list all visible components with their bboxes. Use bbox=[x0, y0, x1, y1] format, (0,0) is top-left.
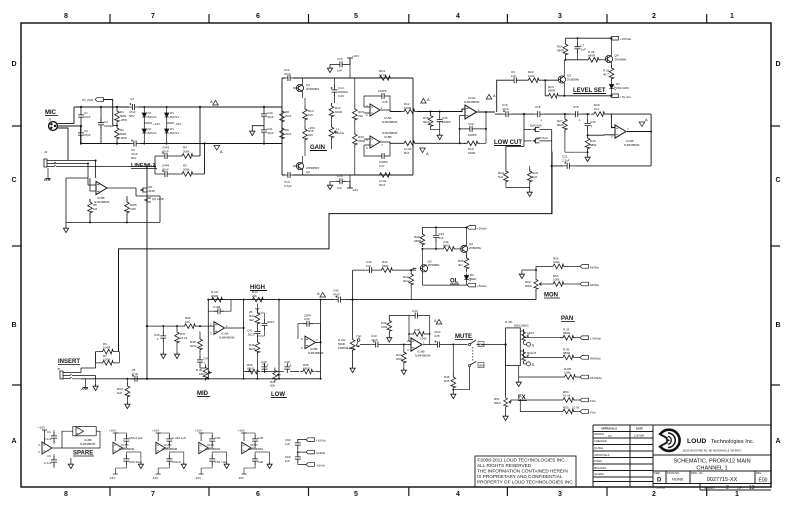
node A arrow up at gain output bbox=[421, 97, 430, 103]
svg-text:2.2uF: 2.2uF bbox=[562, 159, 570, 163]
svg-text:100k: 100k bbox=[420, 337, 427, 341]
capacitor C14 1000uF bbox=[331, 78, 349, 103]
svg-text:C53: C53 bbox=[215, 436, 221, 440]
svg-text:6: 6 bbox=[256, 491, 260, 498]
ground cell3 bbox=[212, 452, 229, 469]
svg-text:NJM4580M: NJM4580M bbox=[80, 442, 96, 446]
wire feed to fx pot bbox=[505, 345, 507, 397]
gain cell box bbox=[282, 78, 413, 175]
svg-text:NJM4580M: NJM4580M bbox=[382, 131, 398, 135]
svg-text:680k: 680k bbox=[590, 143, 597, 147]
svg-text:2N5088s: 2N5088s bbox=[428, 263, 441, 267]
svg-text:C1: C1 bbox=[47, 430, 51, 434]
capacitor C50 0.1uF bbox=[115, 433, 143, 448]
op-amp U16C bbox=[156, 442, 178, 453]
svg-text:47uF: 47uF bbox=[132, 372, 139, 376]
svg-text:1uF: 1uF bbox=[337, 186, 342, 190]
svg-text:QA REL: QA REL bbox=[594, 446, 604, 450]
svg-text:-16V: -16V bbox=[238, 476, 244, 480]
power -15V mid of D3/D4 bbox=[167, 122, 182, 126]
svg-text:S: S bbox=[532, 362, 535, 367]
svg-text:NONE: NONE bbox=[672, 477, 684, 482]
power -16V cell1 bbox=[109, 474, 118, 480]
svg-text:-16V: -16V bbox=[195, 476, 201, 480]
resistor R49 100k to gnd bbox=[381, 316, 409, 343]
svg-text:SHEET: SHEET bbox=[704, 486, 717, 490]
svg-text:Q6 4448: Q6 4448 bbox=[152, 197, 164, 201]
label LINE/HI-Z bbox=[131, 163, 157, 169]
svg-text:C3: C3 bbox=[47, 454, 51, 458]
wire U14B output to feedback bbox=[552, 114, 651, 214]
diode D2 bbox=[142, 119, 157, 144]
capacitor C444 47uF bbox=[155, 164, 179, 178]
capacitor C21 2.2uF bbox=[562, 155, 573, 169]
op-amp U14A bbox=[461, 96, 495, 119]
op-amp U16D spare bbox=[38, 442, 52, 454]
resistor R18 6k19 bbox=[423, 112, 433, 129]
resistor R13 620R bbox=[329, 103, 343, 124]
ground at C46 bbox=[437, 133, 442, 140]
capacitor C18 .1 bbox=[534, 105, 544, 122]
resistor RU6 360R bbox=[353, 131, 367, 175]
transistor Q2 bbox=[293, 156, 319, 175]
node A arrow at U14B out bbox=[639, 117, 648, 127]
bypass C15 +16V bbox=[327, 54, 359, 78]
svg-text:-16V: -16V bbox=[152, 476, 158, 480]
svg-text:+5Vdet: +5Vdet bbox=[477, 284, 487, 288]
svg-text:DRAWN: DRAWN bbox=[594, 432, 604, 436]
node A arrow on EQ rail bbox=[317, 291, 326, 297]
svg-text:100k: 100k bbox=[381, 325, 388, 329]
level set bottom rail bbox=[545, 80, 610, 96]
svg-text:A: A bbox=[645, 117, 648, 122]
flag GNDdet bbox=[306, 450, 325, 455]
svg-text:C: C bbox=[11, 177, 16, 184]
node junctions EQ rails bbox=[199, 299, 322, 380]
svg-text:TH: TH bbox=[608, 434, 612, 438]
svg-text:+15V: +15V bbox=[308, 126, 315, 130]
node mute output junction bbox=[452, 344, 454, 346]
svg-text:.1: .1 bbox=[156, 337, 159, 341]
svg-text:100k: 100k bbox=[553, 260, 560, 264]
resistor R58 10.0k bbox=[560, 390, 580, 402]
svg-text:680R: 680R bbox=[548, 89, 556, 93]
svg-text:680Ω: 680Ω bbox=[247, 367, 255, 371]
label GAIN bbox=[310, 145, 327, 151]
capacitor C41 .0033 bbox=[247, 326, 260, 339]
svg-text:50kC: 50kC bbox=[525, 284, 533, 288]
resistor RU3 10.0k bottom bbox=[377, 173, 393, 187]
svg-text:50V: 50V bbox=[131, 156, 136, 160]
svg-text:680Ω: 680Ω bbox=[443, 244, 451, 248]
ground low cut bbox=[527, 190, 532, 197]
svg-text:C54 7uF: C54 7uF bbox=[215, 460, 227, 464]
svg-text:+16V: +16V bbox=[109, 429, 116, 433]
svg-text:QA ENG: QA ENG bbox=[594, 472, 604, 476]
node row wire bbox=[566, 59, 586, 61]
resistor R54 680 bbox=[560, 348, 580, 360]
svg-text:NJM4580M: NJM4580M bbox=[415, 354, 431, 358]
capacitor C6 1uF bbox=[510, 70, 520, 83]
svg-text:4k7: 4k7 bbox=[458, 263, 463, 267]
svg-text:6u8: 6u8 bbox=[117, 391, 122, 395]
svg-text:46.7: 46.7 bbox=[603, 73, 609, 77]
svg-text:A: A bbox=[220, 149, 223, 154]
svg-text:16R: 16R bbox=[199, 372, 205, 376]
svg-text:47pF: 47pF bbox=[267, 131, 274, 135]
svg-text:CHANNEL 1: CHANNEL 1 bbox=[696, 466, 727, 472]
svg-text:20k: 20k bbox=[270, 384, 275, 388]
potentiometer R52 50kC MON bbox=[525, 277, 542, 291]
wire mute switch to pan bbox=[481, 344, 506, 346]
chassis ground at jack bbox=[44, 168, 50, 181]
svg-text:-16V: -16V bbox=[109, 476, 115, 480]
svg-text:22PF: 22PF bbox=[304, 314, 311, 318]
LED D7 green bbox=[609, 82, 629, 96]
power +16V cell3 bbox=[195, 429, 204, 442]
potentiometer mute fader R42 50kB bbox=[338, 300, 362, 373]
svg-text:+15Vdet: +15Vdet bbox=[620, 37, 631, 41]
wire R18/C46 join to ground bbox=[431, 112, 440, 134]
svg-text:4.7pF: 4.7pF bbox=[284, 184, 292, 188]
svg-text:100R: 100R bbox=[103, 346, 111, 350]
resistor R28 680k bbox=[585, 135, 597, 155]
jfet Q7 bbox=[144, 197, 164, 203]
capacitor C448 feedback bbox=[208, 300, 231, 315]
svg-text:100R: 100R bbox=[404, 106, 412, 110]
svg-text:47uF: 47uF bbox=[162, 150, 169, 154]
label PAN bbox=[561, 316, 575, 322]
resistor R31 3.3k bbox=[422, 240, 460, 251]
svg-text:50kC/50kC: 50kC/50kC bbox=[514, 324, 530, 328]
ground of hi-z cell bbox=[63, 222, 68, 232]
svg-text:680k: 680k bbox=[382, 264, 389, 268]
resistor R25 46R4 bbox=[603, 65, 614, 83]
svg-text:R55: R55 bbox=[563, 406, 569, 410]
svg-text:.1: .1 bbox=[266, 363, 269, 367]
capacitor C45 47uF bbox=[434, 330, 444, 348]
resistor RU4 10.0k top bbox=[377, 69, 393, 80]
capacitor C443 47uF bbox=[155, 146, 179, 160]
phantom flag PH_PAN bbox=[82, 98, 117, 126]
transistor Q1 bbox=[293, 78, 319, 98]
svg-text:16 2k: 16 2k bbox=[180, 336, 188, 340]
svg-text:2N5088s: 2N5088s bbox=[469, 246, 482, 250]
svg-text:C19: C19 bbox=[573, 105, 579, 109]
svg-text:200k: 200k bbox=[183, 150, 190, 154]
flag MUTE bus bbox=[580, 375, 602, 380]
svg-text:+5Vdet: +5Vdet bbox=[477, 226, 487, 230]
svg-text:6u8: 6u8 bbox=[444, 379, 449, 383]
svg-text:SCALE: SCALE bbox=[656, 486, 665, 490]
transistor Q5 bbox=[420, 249, 440, 285]
svg-text:100k: 100k bbox=[553, 278, 560, 282]
resistor R45 680 bbox=[300, 363, 314, 374]
capacitor C55 bbox=[201, 452, 226, 474]
svg-text:7: 7 bbox=[151, 13, 155, 20]
svg-text:SWb: SWb bbox=[479, 364, 485, 368]
label INSERT bbox=[58, 359, 80, 365]
svg-text:2N5088/3: 2N5088/3 bbox=[306, 87, 319, 91]
svg-text:100k: 100k bbox=[528, 74, 535, 78]
svg-text:FSCM NO.: FSCM NO. bbox=[667, 471, 680, 475]
potentiometer MID R41 bbox=[196, 365, 212, 381]
svg-text:D: D bbox=[11, 61, 16, 68]
capacitor C46 100pF bbox=[437, 116, 451, 126]
cell box hi-z bbox=[66, 178, 160, 222]
resistor R38 2k02 bbox=[190, 332, 202, 358]
svg-text:NJM4580M: NJM4580M bbox=[205, 447, 221, 451]
svg-text:680R: 680R bbox=[588, 54, 596, 58]
svg-text:2: 2 bbox=[652, 13, 656, 20]
connector J3 XLR bbox=[49, 122, 58, 131]
svg-text:RIGHT: RIGHT bbox=[527, 351, 537, 355]
svg-text:5: 5 bbox=[354, 13, 358, 20]
node at R23 tap bbox=[544, 79, 546, 81]
svg-text:47pF: 47pF bbox=[284, 72, 291, 76]
svg-text:A: A bbox=[317, 291, 320, 296]
op-amp U16C mute bbox=[407, 338, 431, 358]
svg-text:1uF: 1uF bbox=[366, 264, 371, 268]
wire mute wiper to opamp bbox=[360, 344, 411, 346]
svg-text:2N5088s: 2N5088s bbox=[615, 58, 628, 62]
resistor R27 8k25 bbox=[557, 114, 588, 152]
ground R28 bbox=[585, 155, 590, 162]
svg-text:3k32: 3k32 bbox=[403, 279, 410, 283]
jfet Q8 bbox=[532, 127, 539, 132]
zone numbers top bbox=[64, 13, 734, 20]
capacitor C20 .1 bbox=[585, 114, 596, 135]
svg-text:910R: 910R bbox=[468, 151, 476, 155]
svg-text:100PF: 100PF bbox=[378, 89, 387, 93]
svg-text:D: D bbox=[775, 61, 780, 68]
switch SW14b mute bbox=[469, 362, 485, 368]
svg-text:A: A bbox=[427, 97, 430, 102]
wire gain lower output bbox=[390, 142, 465, 143]
wire tap up to level set bbox=[497, 80, 558, 112]
svg-text:C47: C47 bbox=[379, 164, 385, 168]
potentiometer PAN right bbox=[520, 349, 536, 364]
resistor R57 100k bbox=[550, 274, 580, 286]
resistor R9 bbox=[280, 125, 292, 144]
svg-text:50kC: 50kC bbox=[494, 401, 502, 405]
ground insert arrow bbox=[93, 379, 98, 391]
zone ticks top bbox=[110, 14, 707, 23]
svg-text:2: 2 bbox=[652, 491, 656, 498]
bypass cells bbox=[109, 429, 143, 481]
capacitor C32 parallel bbox=[257, 313, 274, 336]
wire drop from bottom rail bbox=[204, 144, 206, 175]
svg-text:-16V: -16V bbox=[352, 188, 358, 192]
svg-text:1k0: 1k0 bbox=[308, 113, 313, 117]
diode D4 bbox=[165, 119, 180, 144]
wire pan right out bbox=[524, 349, 560, 357]
power +16V cell1 bbox=[109, 429, 118, 442]
fet cell low cut bbox=[506, 114, 552, 168]
svg-text:+15V: +15V bbox=[153, 122, 160, 126]
zone numbers bottom bbox=[64, 491, 739, 498]
capacitor C47 feedback bbox=[364, 142, 390, 168]
approvals table text bbox=[594, 427, 644, 477]
resistor R34 680k bbox=[379, 260, 395, 272]
capacitor C41 47pF bbox=[261, 119, 274, 144]
svg-text:10k: 10k bbox=[185, 320, 190, 324]
resistor RC6 6u8 bbox=[117, 378, 130, 409]
svg-text:BAV21: BAV21 bbox=[148, 115, 157, 119]
svg-text:C57uF: C57uF bbox=[172, 460, 181, 464]
label MIC bbox=[45, 110, 58, 122]
svg-text:.1: .1 bbox=[203, 361, 206, 365]
wires to flags bbox=[298, 440, 306, 465]
svg-text:8: 8 bbox=[64, 491, 68, 498]
svg-text:GkCH: GkCH bbox=[336, 131, 344, 135]
svg-text:680R: 680R bbox=[414, 239, 422, 243]
svg-text:APPROVALS: APPROVALS bbox=[601, 427, 617, 431]
svg-text:R48: R48 bbox=[414, 328, 420, 332]
op-amp U16E bbox=[242, 442, 264, 453]
wire MON wiper row bbox=[542, 283, 550, 285]
svg-text:6k2: 6k2 bbox=[249, 318, 254, 322]
capacitor C1 47pF bbox=[78, 107, 91, 126]
svg-text:B: B bbox=[11, 322, 16, 329]
connector J5 insert jack bbox=[57, 367, 72, 379]
wire EQ cell dividers bbox=[208, 300, 320, 379]
power +16V cell2 bbox=[152, 429, 161, 442]
main wire after U14A bbox=[495, 114, 651, 127]
capacitor C42 47uF bbox=[371, 334, 382, 348]
node junction dots rails bbox=[80, 106, 118, 145]
flag MON L bbox=[580, 265, 599, 270]
svg-text:P ENG: P ENG bbox=[594, 459, 602, 463]
capacitor C49 bbox=[44, 454, 57, 468]
svg-text:.25W: .25W bbox=[120, 118, 127, 122]
svg-text:C18: C18 bbox=[535, 105, 541, 109]
svg-text:16220 WOOD-RED RD. NE WOODINV: 16220 WOOD-RED RD. NE WOODINVILLE, WA 98… bbox=[682, 450, 742, 453]
resistor R35 4k7 bbox=[458, 255, 469, 273]
op-amp U15C bbox=[113, 442, 135, 453]
svg-text:100PF: 100PF bbox=[442, 120, 451, 124]
label OL bbox=[450, 279, 459, 285]
detect flag cluster bbox=[285, 438, 326, 468]
svg-text:.0033: .0033 bbox=[247, 333, 255, 337]
svg-text:5: 5 bbox=[354, 491, 358, 498]
svg-text:5u6: 5u6 bbox=[532, 175, 537, 179]
svg-text:A: A bbox=[426, 151, 429, 156]
svg-text:.1: .1 bbox=[578, 118, 581, 122]
resistor R37 16.2k bbox=[174, 326, 187, 359]
pan dual gang box bbox=[505, 320, 530, 366]
resistor R46 8k25 bbox=[249, 339, 260, 379]
ground fx pot bbox=[503, 407, 508, 421]
svg-text:J5: J5 bbox=[57, 367, 61, 371]
transistor Q6 bbox=[460, 226, 481, 256]
zone letters left bbox=[11, 61, 16, 445]
wire pan left out bbox=[524, 329, 560, 338]
flag R MIX bbox=[580, 356, 601, 361]
wire to C443/C444 bbox=[154, 156, 156, 174]
zone ticks bottom bbox=[110, 487, 707, 496]
OL cell bottom rail bbox=[422, 284, 467, 286]
switch SW14a mute bbox=[469, 340, 485, 347]
spare cell power +16V bbox=[38, 426, 47, 444]
wire EQ rail to MON pot bbox=[535, 290, 537, 300]
svg-text:100k: 100k bbox=[564, 371, 571, 375]
svg-text:2200pF: 2200pF bbox=[104, 124, 114, 128]
op-amp U16A bbox=[210, 322, 245, 340]
label LOW CUT bbox=[494, 140, 522, 146]
svg-text:47uF: 47uF bbox=[434, 330, 441, 334]
svg-text:C15: C15 bbox=[337, 57, 343, 61]
resistor RW5 1M5 bbox=[125, 196, 137, 222]
svg-text:SCHEMATIC, PRORX12 MAIN: SCHEMATIC, PRORX12 MAIN bbox=[673, 459, 750, 465]
capacitor C19 .1 bbox=[572, 105, 582, 122]
potentiometer R51 50kC FX bbox=[494, 395, 511, 409]
resistor R59 10.0k bbox=[560, 406, 580, 414]
wire jack contacts right bbox=[54, 161, 155, 167]
svg-text:1k0: 1k0 bbox=[308, 133, 313, 137]
svg-text:.1: .1 bbox=[590, 124, 593, 128]
flag MON R bbox=[580, 282, 599, 287]
jumper S bottom bbox=[524, 362, 535, 367]
svg-text:B: B bbox=[775, 322, 780, 329]
resistor R5 1M bbox=[88, 199, 98, 222]
capacitor C33 1uF bbox=[433, 226, 444, 250]
capacitor C40 47pF bbox=[261, 107, 274, 120]
diode D3 bbox=[165, 107, 180, 119]
svg-text:A: A bbox=[434, 318, 437, 323]
svg-text:47pF: 47pF bbox=[84, 115, 91, 119]
svg-text:3: 3 bbox=[558, 491, 562, 498]
svg-text:+5V det: +5V det bbox=[620, 95, 631, 99]
svg-text:.25W: .25W bbox=[120, 136, 127, 140]
capacitor C36 22pF feedback bbox=[298, 314, 321, 343]
svg-text:2k21: 2k21 bbox=[285, 114, 292, 118]
transistor Q4 bbox=[605, 37, 627, 67]
svg-text:NJM4580M: NJM4580M bbox=[382, 120, 398, 124]
svg-text:R11: R11 bbox=[404, 151, 410, 155]
wire +in U14B bbox=[588, 134, 615, 136]
svg-text:6k19: 6k19 bbox=[423, 120, 430, 124]
svg-text:3: 3 bbox=[558, 13, 562, 20]
jfet Q6 bbox=[140, 185, 155, 193]
svg-text:THE INFORMATION CONTAINED HERE: THE INFORMATION CONTAINED HEREIN bbox=[477, 469, 568, 474]
node A arrow at U14A out bbox=[486, 93, 496, 99]
label SPARE bbox=[73, 451, 94, 457]
svg-text:100PF: 100PF bbox=[468, 133, 477, 137]
svg-text:2e2: 2e2 bbox=[594, 107, 599, 111]
op-amp U14B bbox=[611, 125, 640, 147]
capacitor C57 bbox=[244, 452, 264, 474]
svg-text:+16V: +16V bbox=[195, 429, 202, 433]
title block bbox=[593, 425, 771, 490]
svg-text:D: D bbox=[657, 478, 662, 484]
svg-text:NJM4580M: NJM4580M bbox=[464, 100, 480, 104]
svg-text:A: A bbox=[775, 438, 780, 445]
svg-text:MFG ENG: MFG ENG bbox=[594, 466, 606, 470]
potentiometer LOW R41 bbox=[270, 368, 281, 388]
wire fx row 2 bbox=[520, 400, 560, 412]
wire mute lower to ground bbox=[453, 367, 469, 390]
wire mute bus out bbox=[519, 366, 562, 380]
resistor R14 bbox=[303, 98, 314, 126]
svg-text:10 0k: 10 0k bbox=[572, 406, 580, 410]
bypass C16 -16V bbox=[327, 174, 358, 192]
svg-text:47uF: 47uF bbox=[333, 293, 340, 297]
capacitor C7 1uF bbox=[575, 37, 586, 60]
svg-text:A: A bbox=[493, 93, 496, 98]
power -16V cell3 bbox=[195, 474, 204, 480]
svg-text:C16: C16 bbox=[337, 174, 343, 178]
